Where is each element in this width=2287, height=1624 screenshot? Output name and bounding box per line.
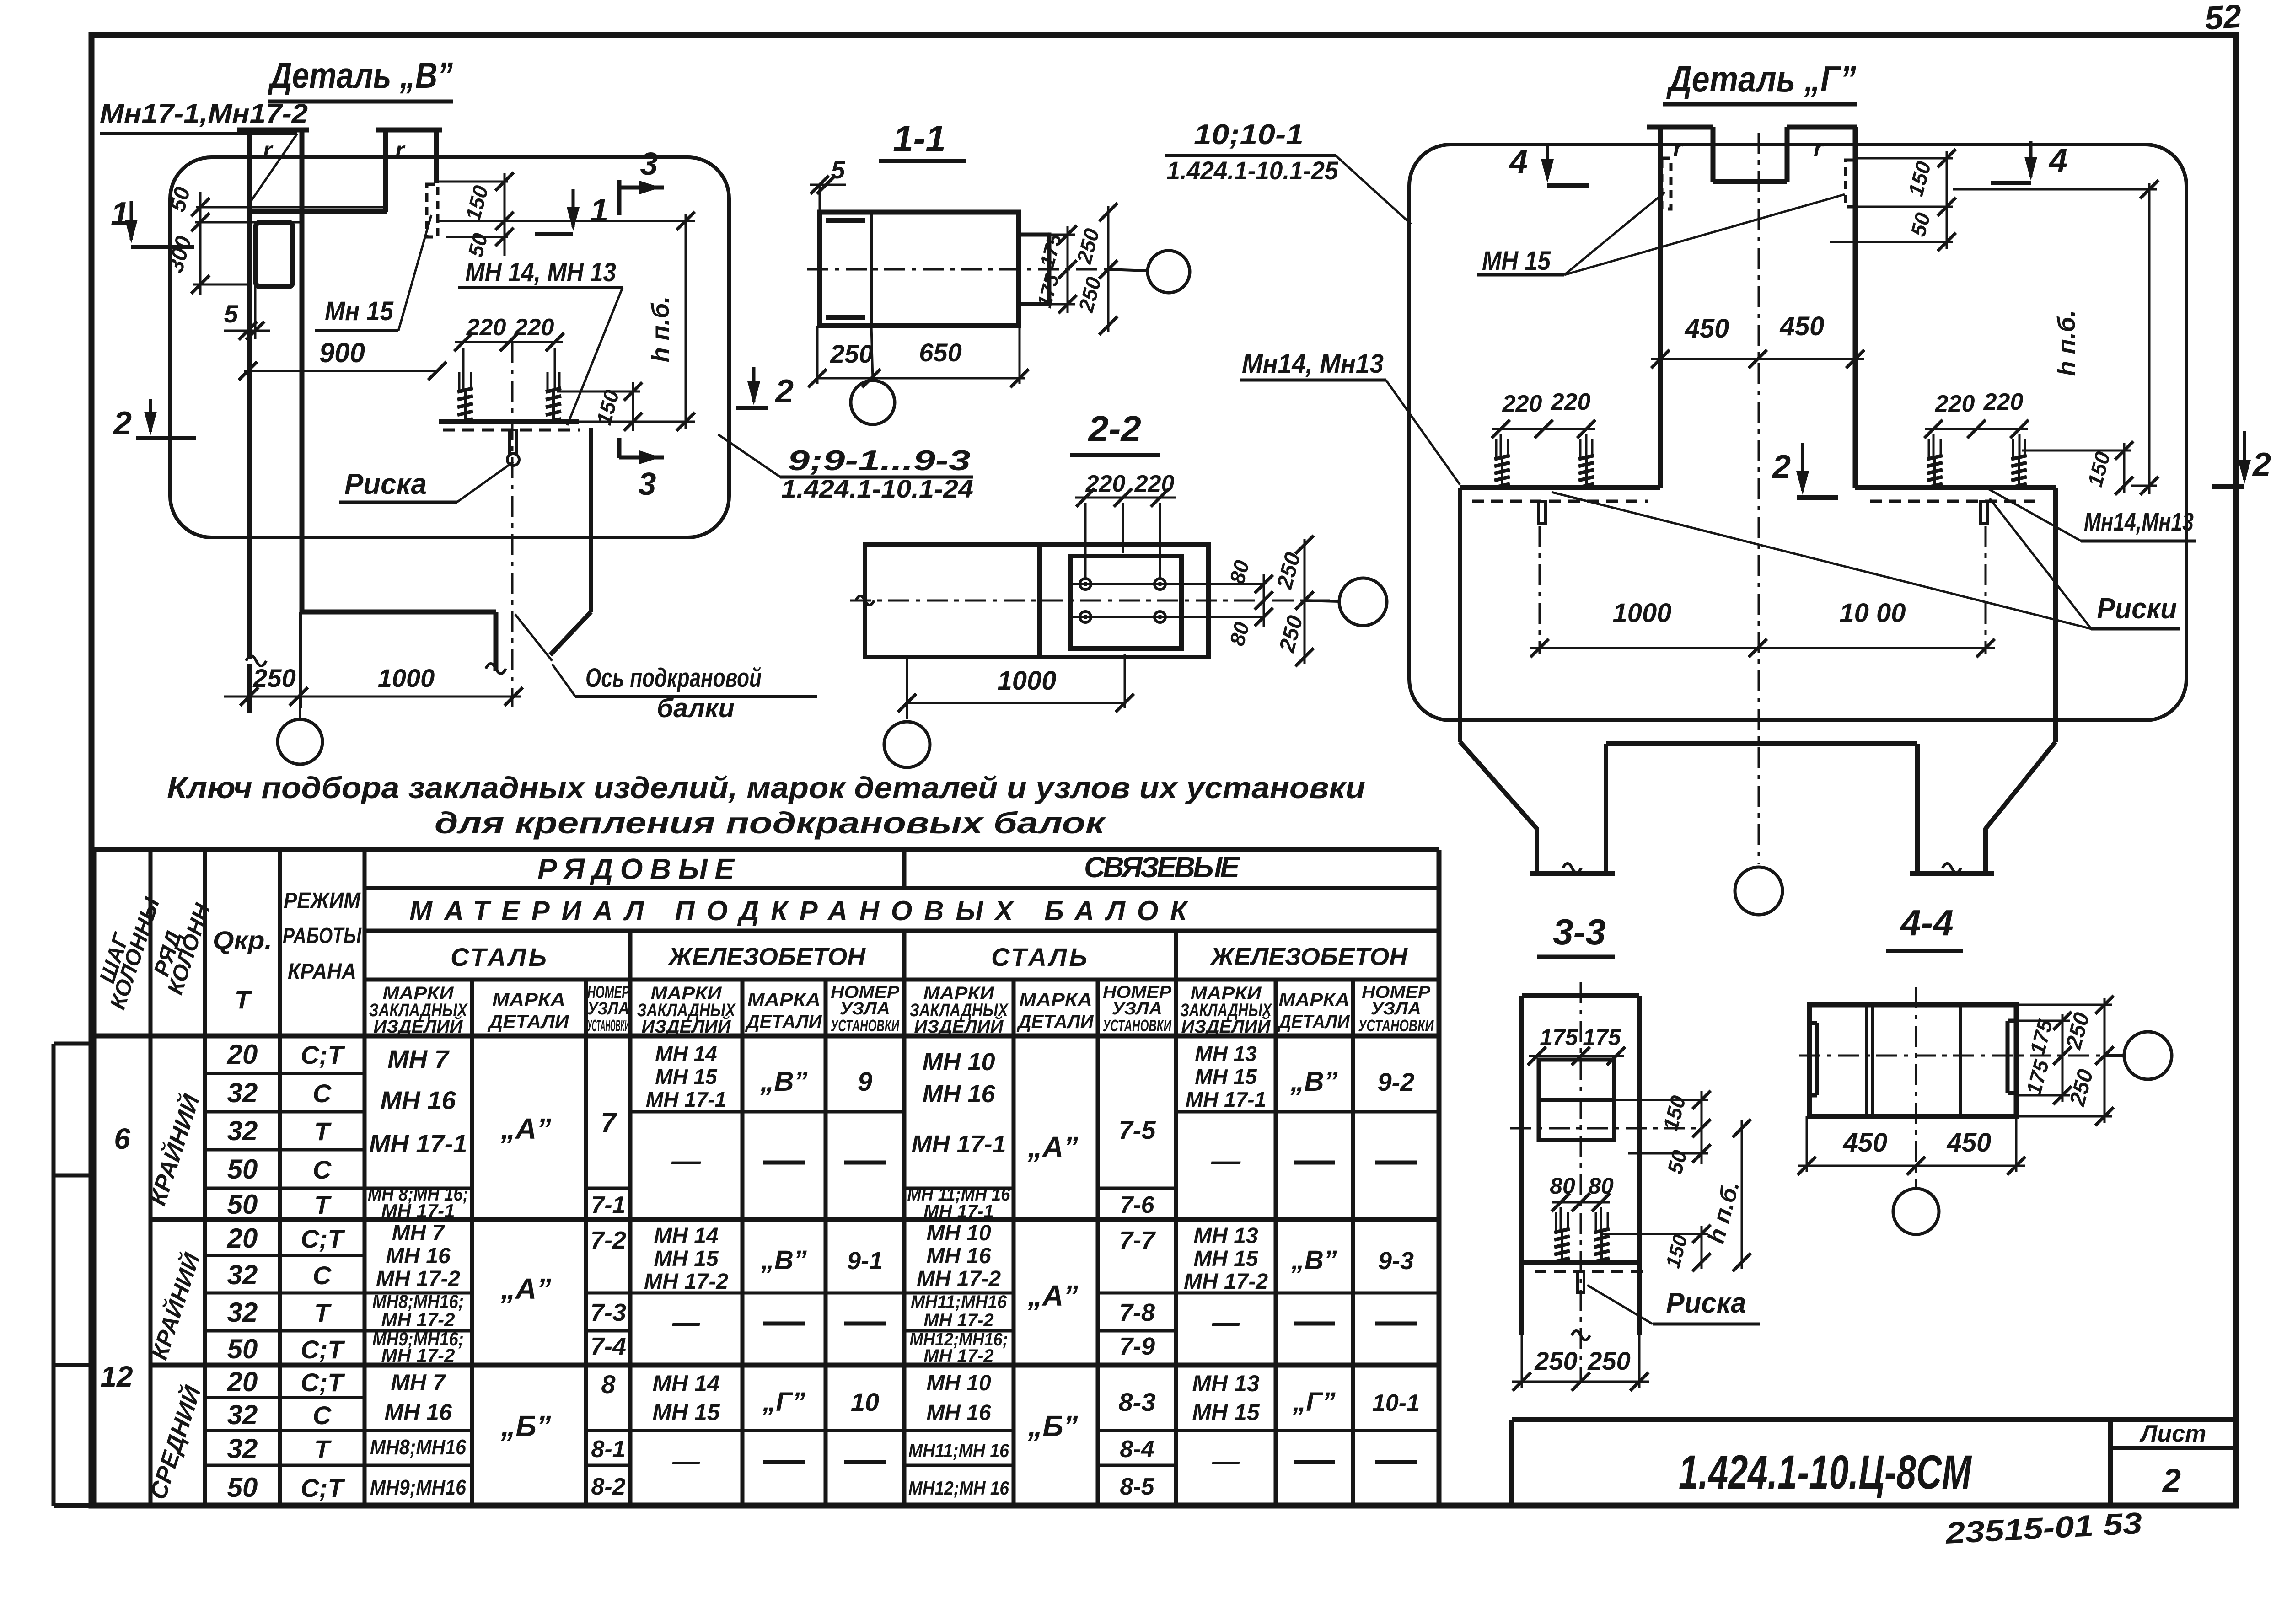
- Detail Г column verticals: [1658, 127, 1663, 488]
- dim 250/650 bottom 1-1: [817, 377, 1025, 380]
- svg-text:МН 16: МН 16: [386, 1244, 451, 1268]
- column outline 3-3: [1519, 996, 1524, 1335]
- svg-text:МН 14: МН 14: [655, 1042, 717, 1066]
- top caps Г: [1647, 125, 1713, 130]
- svg-text:Т: Т: [314, 1117, 332, 1146]
- column axis circle detail B: [299, 708, 301, 719]
- svg-text:650: 650: [919, 338, 961, 367]
- bolt holes: [1080, 579, 1091, 590]
- svg-text:„В”: „В”: [1290, 1066, 1337, 1097]
- node circle right 4-4: [2104, 1054, 2124, 1057]
- svg-text:МН 7: МН 7: [391, 1370, 446, 1395]
- svg-text:Лист: Лист: [2139, 1420, 2206, 1447]
- svg-text:МН 17-1: МН 17-1: [911, 1131, 1006, 1158]
- svg-text:80: 80: [1550, 1173, 1575, 1199]
- svg-text:7-5: 7-5: [1119, 1115, 1156, 1144]
- svg-text:2: 2: [1772, 449, 1791, 485]
- svg-text:3: 3: [640, 146, 658, 182]
- section mark 3 top: [617, 180, 622, 215]
- svg-text:МН 16: МН 16: [922, 1080, 995, 1108]
- svg-text:1: 1: [111, 196, 129, 232]
- svg-text:„В”: „В”: [761, 1245, 807, 1275]
- svg-text:МН 17-2: МН 17-2: [376, 1267, 460, 1291]
- beam cross rect 4-4: [1809, 1005, 2016, 1116]
- svg-text:9;9-1...9-3: 9;9-1...9-3: [788, 445, 971, 477]
- svg-text:ИЗДЕЛИЙ: ИЗДЕЛИЙ: [374, 1015, 463, 1037]
- svg-text:4: 4: [1509, 144, 1528, 180]
- svg-text:ИЗДЕЛИЙ: ИЗДЕЛИЙ: [1181, 1015, 1271, 1037]
- svg-text:СТАЛЬ: СТАЛЬ: [991, 943, 1087, 971]
- section 1-1 beam plan rectangle: [820, 212, 1019, 326]
- svg-text:1.424.1-10.Ц-8СМ: 1.424.1-10.Ц-8СМ: [1679, 1446, 1972, 1499]
- svg-text:—: —: [1212, 1307, 1240, 1338]
- node circle right 2-2: [1305, 600, 1339, 601]
- svg-text:МН 15: МН 15: [655, 1065, 718, 1088]
- svg-text:1000: 1000: [378, 664, 435, 692]
- svg-text:6: 6: [114, 1122, 130, 1155]
- svg-text:МАРКА: МАРКА: [747, 989, 821, 1010]
- svg-text:ИЗДЕЛИЙ: ИЗДЕЛИЙ: [914, 1015, 1004, 1037]
- svg-text:2: 2: [2252, 446, 2271, 483]
- svg-text:4-4: 4-4: [1900, 902, 1954, 943]
- bolt row lines: [1070, 583, 1264, 585]
- svg-text:МН 14: МН 14: [654, 1224, 718, 1248]
- section mark 3 bottom: [617, 438, 622, 458]
- svg-text:МН 17-2: МН 17-2: [923, 1346, 993, 1366]
- svg-text:Риска: Риска: [344, 467, 427, 500]
- svg-text:220: 220: [1134, 471, 1175, 497]
- svg-text:РАБОТЫ: РАБОТЫ: [283, 924, 362, 948]
- svg-text:Мн14,Мн13: Мн14,Мн13: [2084, 507, 2194, 536]
- svg-text:3-3: 3-3: [1553, 911, 1606, 952]
- svg-text:9: 9: [858, 1067, 872, 1097]
- leader from МН17 label to plate: [249, 134, 297, 204]
- svg-text:7-7: 7-7: [1119, 1227, 1156, 1254]
- svg-text:9-1: 9-1: [847, 1247, 883, 1275]
- svg-text:С;Т: С;Т: [301, 1224, 345, 1253]
- svg-text:—: —: [672, 1446, 700, 1476]
- node circle right 1-1: [1108, 269, 1147, 271]
- svg-text:7-4: 7-4: [591, 1333, 626, 1360]
- svg-text:2: 2: [2162, 1463, 2181, 1499]
- group line 6/12: [150, 1217, 1439, 1222]
- svg-text:МН 15: МН 15: [1482, 246, 1551, 276]
- dim h п.б. 3-3: [1741, 1120, 1743, 1269]
- svg-text:450: 450: [1947, 1128, 1992, 1158]
- svg-text:Qкр.: Qкр.: [213, 926, 272, 954]
- svg-text:450: 450: [1780, 311, 1825, 341]
- table bottom line: [54, 1503, 1512, 1508]
- svg-text:С: С: [313, 1155, 332, 1184]
- svg-text:МН11;МН16: МН11;МН16: [911, 1292, 1007, 1312]
- svg-text:МН8;МН16: МН8;МН16: [370, 1435, 466, 1459]
- svg-text:250: 250: [1534, 1346, 1577, 1375]
- Detail B column top caps: [237, 128, 309, 133]
- anchor bolts 3-3: [1561, 1231, 1563, 1260]
- svg-text:„А”: „А”: [500, 1112, 551, 1145]
- dim 50/300 left: [199, 192, 202, 295]
- svg-text:ЖЕЛЕЗОБЕТОН: ЖЕЛЕЗОБЕТОН: [667, 943, 866, 970]
- svg-text:9-2: 9-2: [1378, 1067, 1415, 1096]
- dim 900: [244, 370, 437, 372]
- svg-text:50: 50: [227, 1472, 258, 1503]
- centerline 2-2: [850, 600, 1330, 602]
- node circle below Г: [1735, 867, 1782, 915]
- svg-text:250: 250: [1587, 1346, 1630, 1375]
- svg-text:МН 15: МН 15: [1195, 1065, 1257, 1088]
- svg-text:12: 12: [100, 1360, 133, 1393]
- svg-text:МАРКА: МАРКА: [1019, 989, 1092, 1010]
- svg-text:r: r: [395, 137, 406, 164]
- section mark 1 (top, into detail B): [572, 189, 575, 227]
- svg-text:РЯДОВЫЕ: РЯДОВЫЕ: [537, 852, 735, 885]
- svg-text:МН 17-1: МН 17-1: [646, 1088, 726, 1111]
- bearing plate with bolts: [1070, 556, 1181, 649]
- svg-text:МН 17-1: МН 17-1: [923, 1201, 993, 1222]
- svg-text:7-6: 7-6: [1120, 1192, 1154, 1218]
- svg-text:1.424.1-10.1-24: 1.424.1-10.1-24: [781, 474, 973, 503]
- shelf 3-3: [1522, 1260, 1639, 1265]
- beam axis dash-dot detail B: [511, 342, 514, 707]
- dim 150 lower 3-3: [1603, 1233, 1708, 1235]
- svg-text:Т: Т: [314, 1435, 332, 1463]
- table row lines 12-krainy: [205, 1254, 365, 1257]
- lower column outline Г: [1458, 488, 1462, 742]
- svg-text:МН 14: МН 14: [652, 1371, 719, 1396]
- svg-text:900: 900: [319, 338, 365, 368]
- svg-text:МН 7: МН 7: [392, 1221, 446, 1245]
- svg-text:Ось подкрановой: Ось подкрановой: [585, 663, 762, 693]
- table verticals: [91, 850, 97, 1506]
- dim h п.б. Г: [1953, 188, 2157, 191]
- svg-text:МН 10: МН 10: [922, 1048, 995, 1076]
- svg-text:220: 220: [466, 314, 506, 341]
- svg-text:УСТАНОВКИ: УСТАНОВКИ: [1358, 1016, 1434, 1035]
- dim 150 right bolts Г: [2022, 450, 2131, 452]
- dim 250/250 right: [1107, 206, 1110, 332]
- bearing shelf detail B: [439, 419, 579, 424]
- svg-text:Т: Т: [314, 1298, 332, 1327]
- end plate right: [1019, 235, 1049, 304]
- left anchor bolts Г: [1501, 457, 1503, 486]
- thin reference lines left: [196, 206, 387, 209]
- svg-text:Деталь „В”: Деталь „В”: [268, 55, 453, 96]
- svg-text:МН 14, МН 13: МН 14, МН 13: [465, 257, 616, 287]
- svg-text:ДЕТАЛИ: ДЕТАЛИ: [487, 1011, 569, 1032]
- svg-text:МН 10: МН 10: [926, 1371, 991, 1395]
- svg-text:С: С: [313, 1261, 332, 1290]
- svg-text:МН 17-1: МН 17-1: [381, 1200, 455, 1222]
- svg-text:450: 450: [1843, 1128, 1888, 1158]
- svg-text:250: 250: [252, 664, 295, 692]
- svg-text:Мн17-1,Мн17-2: Мн17-1,Мн17-2: [100, 99, 308, 129]
- svg-text:1000: 1000: [1612, 598, 1671, 628]
- svg-text:5: 5: [224, 300, 239, 328]
- svg-text:„В”: „В”: [1291, 1245, 1337, 1275]
- svg-text:МН 13: МН 13: [1195, 1042, 1257, 1066]
- svg-text:ДЕТАЛИ: ДЕТАЛИ: [1017, 1011, 1094, 1032]
- node circle bottom 1-1: [871, 326, 873, 380]
- svg-text:8-3: 8-3: [1119, 1388, 1156, 1416]
- svg-text:МН 17-2: МН 17-2: [1184, 1270, 1268, 1294]
- svg-text:10: 10: [851, 1388, 879, 1416]
- svg-text:С;Т: С;Т: [301, 1368, 345, 1397]
- dim 150/50 right 3-3: [1701, 1091, 1703, 1164]
- centerline horizontal 3-3: [1510, 1127, 1702, 1130]
- svg-text:Риска: Риска: [1666, 1287, 1746, 1319]
- embedded plate МН17: [256, 222, 293, 287]
- svg-text:8-1: 8-1: [591, 1436, 625, 1463]
- svg-text:2-2: 2-2: [1087, 408, 1141, 449]
- svg-text:МН 16: МН 16: [926, 1244, 991, 1268]
- svg-text:—: —: [1211, 1144, 1241, 1177]
- svg-text:МН 10: МН 10: [926, 1221, 991, 1245]
- svg-text:Ключ подбора закладных изде: Ключ подбора закладных изделий, марок де…: [167, 771, 1365, 804]
- svg-text:220: 220: [1935, 391, 1975, 417]
- middle notch Г: [1711, 127, 1716, 182]
- svg-text:Риски: Риски: [2097, 592, 2177, 625]
- svg-text:1.424.1-10.1-25: 1.424.1-10.1-25: [1167, 156, 1339, 185]
- svg-text:3: 3: [639, 466, 656, 502]
- centerlines 4-4: [1799, 1055, 2106, 1057]
- anchor bolts detail B: [464, 390, 467, 421]
- svg-text:32: 32: [227, 1297, 258, 1328]
- svg-text:10;10-1: 10;10-1: [1194, 119, 1304, 150]
- svg-text:1: 1: [590, 193, 608, 229]
- dim 150/50 top right Г: [1855, 157, 1953, 160]
- svg-text:КРАНА: КРАНА: [288, 959, 356, 984]
- svg-text:С;Т: С;Т: [301, 1040, 345, 1069]
- svg-text:МН 17-2: МН 17-2: [381, 1309, 455, 1330]
- svg-text:9-3: 9-3: [1378, 1247, 1414, 1275]
- table row lines 6-group: [205, 1072, 365, 1075]
- svg-text:„Б”: „Б”: [500, 1410, 551, 1442]
- svg-text:250: 250: [830, 339, 873, 368]
- svg-text:ИЗДЕЛИЙ: ИЗДЕЛИЙ: [642, 1015, 731, 1037]
- left margin tabs: [52, 1044, 56, 1506]
- svg-text:h п.б.: h п.б.: [2053, 310, 2080, 376]
- riska pins Г: [1539, 501, 1546, 523]
- node circle bottom left 2-2: [884, 722, 930, 767]
- end plates 4-4: [1815, 1023, 1819, 1095]
- svg-text:Т: Т: [235, 985, 252, 1014]
- svg-text:32: 32: [227, 1433, 258, 1464]
- title block outline: [1512, 1417, 2236, 1422]
- svg-text:220: 220: [1502, 391, 1542, 417]
- svg-text:МН 17-1: МН 17-1: [369, 1129, 467, 1158]
- svg-text:52: 52: [2204, 0, 2243, 37]
- svg-text:2: 2: [774, 373, 794, 410]
- svg-text:7-3: 7-3: [591, 1299, 626, 1326]
- svg-text:МН 15: МН 15: [1192, 1399, 1260, 1425]
- riska pin 3-3: [1578, 1271, 1584, 1292]
- axis 3-3: [1580, 982, 1582, 1383]
- Detail B step ledge: [302, 610, 496, 615]
- dim 175/175 4-4: [2062, 1014, 2064, 1102]
- svg-text:7-9: 7-9: [1119, 1333, 1155, 1360]
- svg-text:„Г”: „Г”: [1292, 1387, 1336, 1417]
- svg-text:r: r: [1673, 135, 1684, 162]
- section mark 2 right Г: [2243, 431, 2246, 480]
- svg-text:8: 8: [601, 1370, 616, 1399]
- node circle bottom 4-4: [1893, 1189, 1939, 1234]
- svg-text:4: 4: [2048, 142, 2067, 179]
- svg-text:МН 17-2: МН 17-2: [917, 1267, 1001, 1291]
- svg-text:МН 15: МН 15: [654, 1247, 719, 1271]
- svg-text:450: 450: [1685, 314, 1729, 343]
- inner legs Г: [1604, 744, 1608, 874]
- svg-text:175: 175: [1540, 1024, 1578, 1050]
- dim 250/1000 bottom: [224, 696, 521, 698]
- svg-text:h п.б.: h п.б.: [647, 296, 674, 362]
- svg-text:УСТАНОВКИ: УСТАНОВКИ: [587, 1016, 629, 1035]
- axis dash-dot Г: [1758, 133, 1760, 864]
- svg-text:ДЕТАЛИ: ДЕТАЛИ: [745, 1011, 822, 1032]
- svg-text:50: 50: [227, 1154, 258, 1185]
- svg-text:7-1: 7-1: [591, 1192, 625, 1218]
- inner column edge below step: [299, 612, 302, 708]
- svg-text:50: 50: [227, 1334, 258, 1364]
- svg-text:МН 16: МН 16: [926, 1401, 991, 1425]
- svg-text:МН 13: МН 13: [1192, 1371, 1259, 1396]
- dim 150 (shelf): [557, 391, 640, 393]
- flange plates inside: [826, 218, 865, 223]
- svg-text:МН 17-2: МН 17-2: [381, 1345, 455, 1366]
- svg-text:10 00: 10 00: [1839, 598, 1906, 628]
- svg-text:Мн 15: Мн 15: [325, 296, 394, 326]
- riska pin detail B: [510, 430, 516, 454]
- dim 250/250 4-4: [2104, 998, 2106, 1123]
- svg-text:„А”: „А”: [500, 1272, 551, 1305]
- svg-text:7-2: 7-2: [591, 1227, 626, 1254]
- svg-text:32: 32: [227, 1399, 258, 1430]
- svg-text:r: r: [263, 137, 274, 164]
- dim h п.б.: [579, 421, 695, 423]
- svg-text:С: С: [313, 1079, 332, 1108]
- svg-text:СВЯЗЕВЫЕ: СВЯЗЕВЫЕ: [1084, 851, 1240, 884]
- svg-text:МН 15: МН 15: [1193, 1247, 1259, 1271]
- svg-text:МАРКА: МАРКА: [492, 989, 565, 1010]
- svg-text:С;Т: С;Т: [301, 1474, 345, 1502]
- svg-text:МАРКА: МАРКА: [1279, 989, 1350, 1010]
- svg-text:8-4: 8-4: [1120, 1436, 1154, 1463]
- section mark 2 (right of detail B): [752, 367, 756, 402]
- svg-text:СТАЛЬ: СТАЛЬ: [451, 943, 547, 971]
- svg-text:МН12;МН 16: МН12;МН 16: [908, 1477, 1009, 1499]
- Detail B column flange verticals: [247, 129, 252, 659]
- section 2-2 beam plan: [865, 545, 1208, 657]
- svg-text:8-2: 8-2: [591, 1474, 625, 1500]
- beam cut V symbol: [589, 428, 593, 612]
- svg-text:С;Т: С;Т: [301, 1335, 345, 1364]
- svg-text:„Г”: „Г”: [762, 1387, 805, 1417]
- dim 175/175 right: [1067, 226, 1069, 313]
- svg-text:ДЕТАЛИ: ДЕТАЛИ: [1278, 1011, 1350, 1032]
- svg-text:УЗЛА: УЗЛА: [1371, 999, 1421, 1018]
- svg-text:УЗЛА: УЗЛА: [1112, 999, 1162, 1018]
- svg-text:УЗЛА: УЗЛА: [840, 999, 890, 1018]
- dim 5: [224, 330, 270, 332]
- svg-text:РЕЖИМ: РЕЖИМ: [284, 889, 361, 913]
- svg-text:МН9;МН16: МН9;МН16: [370, 1475, 466, 1499]
- svg-text:r: r: [1814, 135, 1824, 162]
- svg-text:С: С: [313, 1401, 332, 1430]
- svg-text:20: 20: [227, 1039, 258, 1070]
- dim 250/250 right 2-2: [1304, 539, 1306, 664]
- right anchor bolts Г: [1933, 457, 1936, 486]
- svg-text:—: —: [671, 1144, 701, 1177]
- svg-text:7: 7: [601, 1107, 617, 1138]
- dashed МН15 plates Г: [1662, 158, 1671, 209]
- svg-text:УЗЛА: УЗЛА: [587, 999, 629, 1018]
- svg-text:МН 13: МН 13: [1193, 1224, 1258, 1248]
- svg-text:2: 2: [113, 405, 132, 442]
- bearing shelves Г: [1460, 485, 1660, 490]
- svg-text:20: 20: [227, 1367, 258, 1397]
- svg-text:—: —: [1212, 1446, 1240, 1476]
- svg-text:8-5: 8-5: [1120, 1474, 1154, 1500]
- svg-text:УСТАНОВКИ: УСТАНОВКИ: [831, 1016, 900, 1035]
- svg-text:МН 7: МН 7: [387, 1045, 450, 1073]
- dim 150/50 upper: [504, 173, 506, 256]
- svg-text:ЖЕЛЕЗОБЕТОН: ЖЕЛЕЗОБЕТОН: [1209, 943, 1408, 970]
- thick shelf line under beam: [248, 209, 387, 214]
- svg-text:„А”: „А”: [1027, 1279, 1078, 1312]
- svg-text:Мн14, Мн13: Мн14, Мн13: [1242, 349, 1384, 379]
- svg-text:для крепления подкрановых б: для крепления подкрановых балок: [435, 806, 1106, 840]
- Detail Г rounded outline: [1409, 145, 2186, 720]
- svg-text:7-8: 7-8: [1119, 1299, 1155, 1326]
- section mark 4 right: [2029, 141, 2033, 177]
- svg-text:МН 17-2: МН 17-2: [644, 1270, 728, 1294]
- svg-text:МН 15: МН 15: [652, 1399, 720, 1425]
- svg-text:„А”: „А”: [1027, 1131, 1078, 1163]
- svg-text:1000: 1000: [997, 666, 1056, 696]
- svg-text:Деталь „Г”: Деталь „Г”: [1666, 59, 1856, 99]
- centerline 1-1: [807, 268, 1108, 271]
- table row lines 12-sredny: [205, 1396, 365, 1399]
- svg-text:—: —: [672, 1307, 700, 1338]
- Detail B column body rounded outline: [170, 157, 729, 537]
- svg-text:„Б”: „Б”: [1027, 1410, 1078, 1442]
- svg-text:32: 32: [227, 1260, 258, 1290]
- svg-text:10-1: 10-1: [1372, 1390, 1420, 1416]
- svg-text:МН 16: МН 16: [381, 1086, 456, 1115]
- svg-text:220: 220: [514, 314, 554, 341]
- svg-text:32: 32: [227, 1115, 258, 1146]
- dashed plate МН15 on detail B: [427, 184, 438, 237]
- svg-text:Т: Т: [314, 1190, 332, 1219]
- svg-text:МН 16: МН 16: [384, 1399, 452, 1425]
- dim 80/80 right 2-2: [1263, 574, 1265, 627]
- svg-text:220: 220: [1983, 389, 2024, 415]
- svg-text:„В”: „В”: [760, 1066, 807, 1097]
- svg-text:20: 20: [227, 1223, 258, 1254]
- svg-text:220: 220: [1551, 389, 1591, 415]
- table outer and header horizontals: [94, 847, 1439, 852]
- svg-text:МН 17-1: МН 17-1: [1186, 1088, 1266, 1111]
- svg-text:32: 32: [227, 1077, 258, 1108]
- svg-text:МН11;МН 16: МН11;МН 16: [908, 1440, 1009, 1461]
- embedded plate 3-3: [1539, 1060, 1614, 1140]
- group line krainy/sredny: [150, 1363, 1439, 1368]
- svg-text:1-1: 1-1: [893, 118, 946, 159]
- svg-text:МН 17-2: МН 17-2: [923, 1310, 993, 1330]
- svg-text:УСТАНОВКИ: УСТАНОВКИ: [1103, 1016, 1172, 1035]
- svg-text:50: 50: [227, 1189, 258, 1220]
